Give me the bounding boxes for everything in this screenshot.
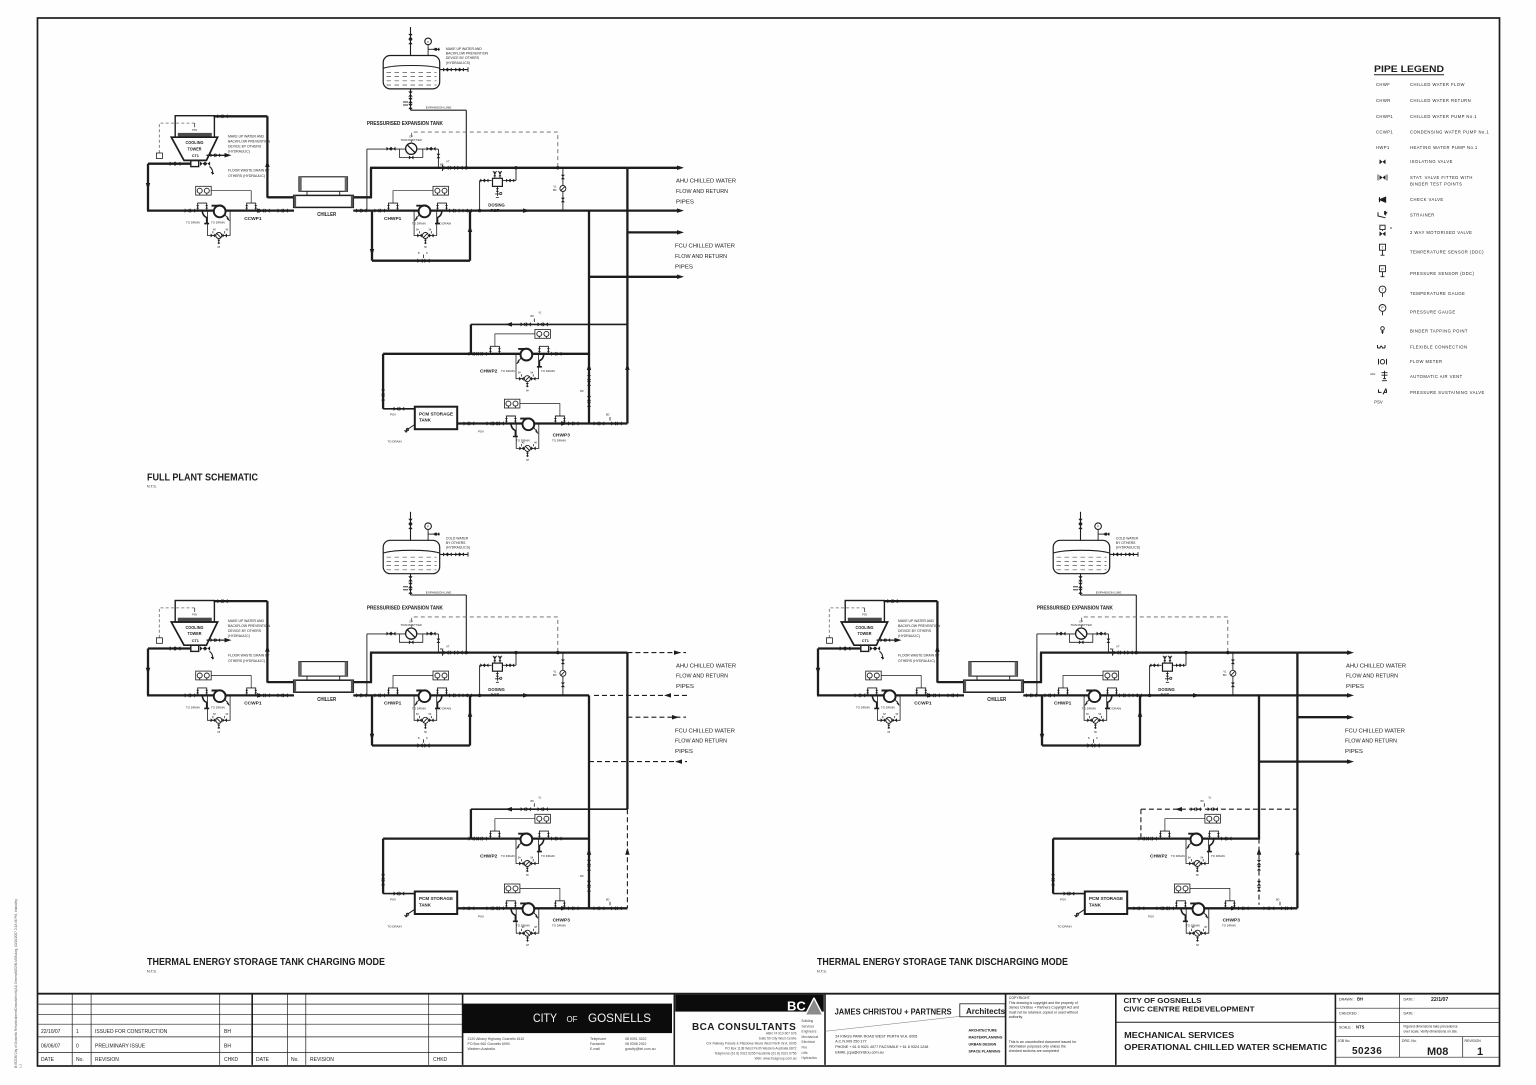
- svg-text:Hydraulics: Hydraulics: [802, 1056, 818, 1060]
- svg-text:COLD WATER: COLD WATER: [446, 536, 469, 540]
- svg-text:Architects: Architects: [966, 1007, 1006, 1016]
- svg-text:PIPE LEGEND: PIPE LEGEND: [1374, 64, 1444, 75]
- svg-text:Suite 59 City West Centre: Suite 59 City West Centre: [759, 1036, 797, 1040]
- svg-text:ABN 74 910 607 676: ABN 74 910 607 676: [766, 1031, 797, 1035]
- svg-text:CIVIC CENTRE REDEVELOPMENT: CIVIC CENTRE REDEVELOPMENT: [1124, 1007, 1256, 1014]
- svg-text:(HYDRAULICS): (HYDRAULICS): [1116, 546, 1140, 550]
- svg-text:Services: Services: [802, 1024, 815, 1028]
- svg-text:BINDER TEST POINTS: BINDER TEST POINTS: [1410, 181, 1462, 186]
- svg-text:SCALE :: SCALE :: [1339, 1026, 1353, 1030]
- svg-text:DATE: DATE: [41, 1057, 55, 1063]
- svg-text:BH: BH: [1357, 997, 1363, 1002]
- svg-text:06/06/07: 06/06/07: [41, 1044, 61, 1050]
- svg-text:MASTERPLANNING: MASTERPLANNING: [969, 1036, 1003, 1040]
- svg-text:OPERATIONAL CHILLED WATER S: OPERATIONAL CHILLED WATER SCHEMATIC: [1124, 1043, 1327, 1052]
- svg-text:REVISION: REVISION: [95, 1057, 119, 1063]
- svg-text:NTS: NTS: [1356, 1025, 1365, 1030]
- svg-text:EMAIL jcpa@christou.com.au: EMAIL jcpa@christou.com.au: [835, 1051, 884, 1055]
- svg-text:Facsimile: Facsimile: [590, 1042, 605, 1046]
- svg-text:Telephone (61 8) 9321 6255 Fac: Telephone (61 8) 9321 6255 Facsimile (61…: [714, 1051, 796, 1055]
- svg-text:STAT. VALVE FITTED WITH: STAT. VALVE FITTED WITH: [1410, 175, 1473, 180]
- svg-text:ISSUED FOR CONSTRUCTION: ISSUED FOR CONSTRUCTION: [95, 1029, 168, 1035]
- svg-text:CHWR: CHWR: [1376, 98, 1391, 103]
- svg-text:MAKE UP WATER AND: MAKE UP WATER AND: [446, 47, 482, 51]
- svg-text:Electrical: Electrical: [802, 1040, 816, 1044]
- svg-text:DRG. No.: DRG. No.: [1402, 1039, 1417, 1043]
- svg-text:CITY OF GOSNELLS: CITY OF GOSNELLS: [1124, 998, 1202, 1005]
- svg-text:TEMPERATURE SENSOR (DDC): TEMPERATURE SENSOR (DDC): [1410, 250, 1484, 255]
- svg-text:No.: No.: [291, 1057, 299, 1063]
- svg-text:DATE :: DATE :: [1404, 1012, 1415, 1016]
- svg-text:BACKFLOW PREVENTION: BACKFLOW PREVENTION: [446, 52, 489, 56]
- svg-text:TEMPERATURE GAUGE: TEMPERATURE GAUGE: [1410, 291, 1465, 296]
- svg-text:BH: BH: [224, 1044, 231, 1050]
- svg-text:PSV: PSV: [1374, 400, 1383, 405]
- svg-text:CHILLED WATER FLOW: CHILLED WATER FLOW: [1410, 82, 1465, 87]
- svg-text:2120 Albany Highway Gosnell: 2120 Albany Highway Gosnells 6110: [468, 1037, 525, 1041]
- svg-text:CHECK VALVE: CHECK VALVE: [1410, 197, 1444, 202]
- svg-text:22/10/07: 22/10/07: [41, 1029, 61, 1035]
- svg-text:N.T.S.: N.T.S.: [147, 485, 157, 489]
- svg-text:must not be retained, copied o: must not be retained, copied or used wit…: [1009, 1010, 1078, 1014]
- svg-text:DRAWN :: DRAWN :: [1339, 998, 1354, 1002]
- svg-text:CHECKED :: CHECKED :: [1339, 1012, 1359, 1016]
- svg-text:CITY: CITY: [533, 1013, 557, 1025]
- svg-text:ISOLATING VALVE: ISOLATING VALVE: [1410, 159, 1453, 164]
- svg-text:This drawing is copyright and: This drawing is copyright and the proper…: [1009, 1001, 1078, 1005]
- svg-text:JAMES CHRISTOU + PARTNERS: JAMES CHRISTOU + PARTNERS: [835, 1008, 953, 1017]
- svg-text:CHKD: CHKD: [433, 1057, 448, 1063]
- svg-text:BD: BD: [580, 875, 584, 878]
- svg-text:No.: No.: [76, 1057, 84, 1063]
- svg-text:A.C.N.009 250 177: A.C.N.009 250 177: [835, 1040, 866, 1044]
- svg-text:THERMAL ENERGY STORAGE TANK CH: THERMAL ENERGY STORAGE TANK CHARGING MOD…: [147, 956, 385, 968]
- svg-text:REVISION: REVISION: [310, 1057, 334, 1063]
- svg-text:This is an uncontrolled docume: This is an uncontrolled document issued …: [1009, 1040, 1077, 1044]
- svg-text:CHILLED WATER PUMP No.1: CHILLED WATER PUMP No.1: [1410, 114, 1477, 119]
- svg-text:REVISION: REVISION: [1465, 1039, 1482, 1043]
- svg-text:DATE :: DATE :: [1404, 998, 1415, 1002]
- svg-text:FLOW METER: FLOW METER: [1410, 359, 1442, 364]
- svg-text:Building: Building: [802, 1019, 814, 1023]
- svg-text:OF: OF: [567, 1014, 578, 1024]
- svg-text:B:\50236 City of Gosnells Refu: B:\50236 City of Gosnells Refurbishment\…: [14, 899, 18, 1068]
- svg-text:over scale. Verify dimensions: over scale. Verify dimensions on site.: [1404, 1030, 1458, 1034]
- svg-text:1: 1: [76, 1029, 79, 1035]
- svg-text:Web: www.bcagroup.com.au: Web: www.bcagroup.com.au: [755, 1056, 797, 1060]
- svg-text:BY OTHERS: BY OTHERS: [1116, 541, 1136, 545]
- svg-text:CHWF: CHWF: [1376, 82, 1390, 87]
- svg-text:1:2: 1:2: [19, 1063, 23, 1068]
- svg-text:BC: BC: [787, 999, 806, 1014]
- svg-text:PRESSURE SUSTAINING VALVE: PRESSURE SUSTAINING VALVE: [1410, 390, 1485, 395]
- svg-text:CCWP1: CCWP1: [1376, 130, 1393, 135]
- svg-text:Figured dimensions take preced: Figured dimensions take precedence: [1404, 1025, 1458, 1029]
- svg-text:COPYRIGHT: COPYRIGHT: [1009, 996, 1031, 1000]
- svg-text:DATE: DATE: [256, 1057, 270, 1063]
- svg-text:M08: M08: [1427, 1046, 1448, 1058]
- svg-text:authority.: authority.: [1009, 1015, 1023, 1019]
- svg-text:ARCHITECTURE: ARCHITECTURE: [969, 1029, 998, 1033]
- svg-text:08 9398 2922: 08 9398 2922: [625, 1042, 646, 1046]
- svg-text:CHILLED WATER RETURN: CHILLED WATER RETURN: [1410, 98, 1471, 103]
- svg-text:Western Australia: Western Australia: [468, 1047, 495, 1051]
- svg-text:PHONE + 61 8 9321 4077 FACS: PHONE + 61 8 9321 4077 FACSIMILE + 61 8 …: [835, 1045, 928, 1049]
- svg-text:FLEXIBLE CONNECTION: FLEXIBLE CONNECTION: [1410, 344, 1467, 349]
- svg-text:T: T: [1381, 288, 1383, 292]
- svg-text:James Christou + Partners Copy: James Christou + Partners Copyright Act …: [1009, 1006, 1079, 1010]
- svg-text:Lifts: Lifts: [802, 1051, 808, 1055]
- svg-text:1: 1: [1477, 1046, 1483, 1058]
- svg-text:CHKD: CHKD: [224, 1057, 239, 1063]
- svg-text:24 KINGS PARK ROAD WEST PERT: 24 KINGS PARK ROAD WEST PERTH W.A. 6005: [835, 1034, 917, 1038]
- svg-text:PO Box 662 Gosnells 6990: PO Box 662 Gosnells 6990: [468, 1042, 510, 1046]
- svg-text:information purposes only unle: information purposes only unless the: [1009, 1045, 1066, 1049]
- svg-text:PRESSURE SENSOR (DDC): PRESSURE SENSOR (DDC): [1410, 271, 1475, 276]
- svg-text:Cnr Railway Parade & Plaistowe: Cnr Railway Parade & Plaistowe Mews West…: [706, 1041, 796, 1045]
- svg-text:2 WAY MOTORISED VALVE: 2 WAY MOTORISED VALVE: [1410, 230, 1472, 235]
- svg-text:Mechanical: Mechanical: [802, 1035, 819, 1039]
- svg-text:08 9391 3222: 08 9391 3222: [625, 1037, 646, 1041]
- svg-text:BY OTHERS: BY OTHERS: [446, 541, 466, 545]
- svg-text:COLD WATER: COLD WATER: [1116, 536, 1139, 540]
- svg-text:PO Box 1138 West Perth Western: PO Box 1138 West Perth Western Australia…: [725, 1046, 797, 1050]
- svg-text:STRAINER: STRAINER: [1410, 212, 1435, 217]
- svg-text:Engineers: Engineers: [802, 1030, 817, 1034]
- svg-text:BINDER TAPPING POINT: BINDER TAPPING POINT: [1410, 328, 1468, 333]
- svg-text:HEATING WATER PUMP No.1: HEATING WATER PUMP No.1: [1410, 145, 1478, 150]
- svg-text:E-mail: E-mail: [590, 1047, 600, 1051]
- svg-text:SPACE PLANNING: SPACE PLANNING: [969, 1050, 1001, 1054]
- svg-text:AUTOMATIC AIR VENT: AUTOMATIC AIR VENT: [1410, 374, 1463, 379]
- svg-text:(HYDRAULICS): (HYDRAULICS): [446, 61, 470, 65]
- svg-text:BD: BD: [580, 390, 584, 393]
- svg-text:PRELIMINARY ISSUE: PRELIMINARY ISSUE: [95, 1044, 146, 1050]
- svg-text:MECHANICAL SERVICES: MECHANICAL SERVICES: [1124, 1031, 1235, 1040]
- svg-text:AAV: AAV: [1370, 372, 1376, 376]
- svg-text:goscity@tel.com.au: goscity@tel.com.au: [625, 1047, 656, 1051]
- svg-text:HWP1: HWP1: [1376, 145, 1390, 150]
- svg-text:FULL PLANT SCHEMATIC: FULL PLANT SCHEMATIC: [147, 471, 258, 483]
- svg-text:(HYDRAULICS): (HYDRAULICS): [446, 546, 470, 550]
- svg-text:CHWP1: CHWP1: [1376, 114, 1393, 119]
- svg-text:URBAN DESIGN: URBAN DESIGN: [969, 1043, 997, 1047]
- svg-text:THERMAL ENERGY STORAGE TANK DI: THERMAL ENERGY STORAGE TANK DISCHARGING …: [817, 956, 1068, 968]
- svg-text:N.T.S.: N.T.S.: [147, 969, 157, 973]
- svg-text:M: M: [1390, 226, 1392, 230]
- svg-text:CONDENSING WATER PUMP No.1: CONDENSING WATER PUMP No.1: [1410, 130, 1489, 135]
- svg-text:Telephone: Telephone: [590, 1037, 606, 1041]
- svg-text:50236: 50236: [1352, 1046, 1382, 1057]
- svg-text:PRESSURE GAUGE: PRESSURE GAUGE: [1410, 309, 1456, 314]
- svg-text:N.T.S.: N.T.S.: [817, 969, 827, 973]
- svg-text:checked sections are completed: checked sections are completed: [1009, 1049, 1059, 1053]
- svg-text:Fire: Fire: [802, 1046, 808, 1050]
- svg-text:JOB No.: JOB No.: [1338, 1039, 1351, 1043]
- svg-text:BH: BH: [224, 1029, 231, 1035]
- svg-text:DEVICE BY OTHERS: DEVICE BY OTHERS: [446, 56, 480, 60]
- svg-text:0: 0: [76, 1044, 79, 1050]
- svg-text:GOSNELLS: GOSNELLS: [588, 1013, 651, 1025]
- svg-text:22/1/07: 22/1/07: [1431, 997, 1448, 1003]
